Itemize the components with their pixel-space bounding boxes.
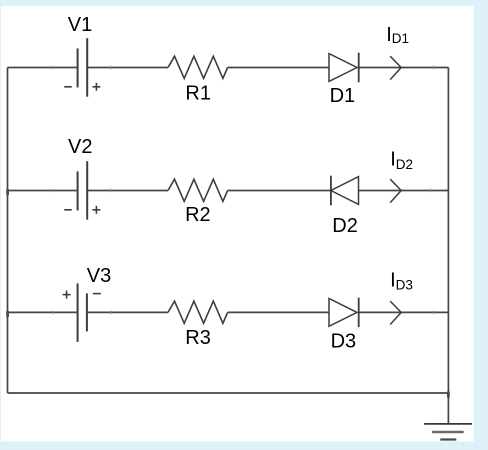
wire row3 bus to V3	[8, 311, 77, 313]
diode D2	[331, 176, 359, 206]
pin tick V2 right	[110, 189, 112, 193]
wire bottom	[8, 392, 449, 394]
wire row1 V1 to R1	[88, 67, 168, 69]
pin tick V1 left	[52, 66, 54, 70]
junction left bus row3	[6, 311, 9, 317]
battery V2	[64, 161, 100, 220]
wire row1 bus to V1	[8, 67, 77, 69]
diode D1	[329, 53, 359, 83]
wire row2 V2 to R2	[88, 190, 168, 192]
diode D3	[329, 298, 359, 328]
pin tick V2 left	[52, 189, 54, 193]
wire row1 D1 to right bus	[359, 67, 449, 69]
svg-text:V2: V2	[68, 136, 92, 158]
current arrow ID2	[390, 179, 401, 202]
svg-text:D3: D3	[331, 330, 357, 352]
current arrow ID1	[390, 56, 401, 79]
wire row3 R3 to D3	[228, 311, 329, 313]
battery V1	[64, 38, 100, 96]
junction left bus row2	[6, 189, 9, 195]
pin tick D2 right	[430, 189, 432, 193]
wire row2 bus to V2	[8, 190, 77, 192]
svg-text:R2: R2	[185, 204, 211, 226]
svg-text:R1: R1	[185, 82, 211, 104]
wire row2 D2 to right bus	[359, 190, 449, 192]
wire row3 V3 to R3	[88, 311, 168, 313]
current arrow ID3	[390, 301, 401, 324]
resistor R1	[168, 56, 228, 78]
battery V3 (reversed)	[63, 283, 101, 342]
wire row2 R2 to D2	[228, 190, 331, 192]
pin tick D3 right	[433, 311, 435, 315]
pin tick D1 right	[433, 66, 435, 70]
svg-text:V1: V1	[68, 14, 92, 36]
ground	[424, 424, 472, 440]
resistor R3	[168, 301, 228, 323]
svg-text:V3: V3	[87, 265, 111, 287]
pin tick V1 right	[110, 66, 112, 70]
junction right bus bottom	[447, 392, 450, 398]
pin tick V3 left	[52, 311, 54, 315]
wire right bus	[447, 68, 449, 424]
svg-text:D1: D1	[330, 85, 356, 107]
pin tick V3 right	[110, 311, 112, 315]
svg-text:R3: R3	[185, 327, 211, 349]
resistor R2	[168, 179, 228, 201]
wire left bus	[7, 68, 9, 394]
wire row3 D3 to right bus	[359, 311, 449, 313]
svg-text:D2: D2	[332, 215, 358, 237]
wire row1 R1 to D1	[228, 67, 329, 69]
